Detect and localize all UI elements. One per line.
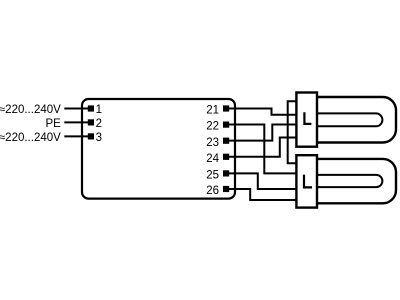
svg-text:≈220...240V: ≈220...240V xyxy=(0,104,61,116)
svg-text:PE: PE xyxy=(45,118,61,130)
pin number 25 xyxy=(206,170,219,182)
svg-text:26: 26 xyxy=(206,185,219,197)
wire pin 25 to lamp 2 pin 3 xyxy=(225,173,297,189)
label PE xyxy=(45,118,61,130)
pin number 3 xyxy=(96,132,102,144)
svg-text:21: 21 xyxy=(206,105,219,117)
pin number 2 xyxy=(96,118,102,130)
svg-text:1: 1 xyxy=(96,104,102,116)
wire link lamp 1 pin 1 to lamp 2 pin 1 xyxy=(288,101,297,163)
terminal square pin 2 xyxy=(88,119,94,125)
svg-text:2: 2 xyxy=(96,118,102,130)
svg-text:25: 25 xyxy=(206,170,219,182)
svg-text:3: 3 xyxy=(96,132,102,144)
label ~220...240V line 1 xyxy=(0,104,61,116)
wire pin 26 to lamp 2 pin 4 xyxy=(225,189,297,200)
terminal square pin 22 xyxy=(223,122,229,128)
terminal square pin 1 xyxy=(88,105,94,111)
terminal square pin 23 xyxy=(223,138,229,144)
wire N input to pin 3 xyxy=(64,135,90,137)
lamp 2 label L xyxy=(304,175,312,188)
ballast box xyxy=(82,99,235,199)
svg-text:22: 22 xyxy=(206,121,219,133)
lamp 1 tube outline xyxy=(317,97,396,143)
svg-text:23: 23 xyxy=(206,137,219,149)
lamp 1 inner tube fold xyxy=(317,113,382,126)
terminal square pin 24 xyxy=(223,154,229,160)
pin number 22 xyxy=(206,121,219,133)
lamp 1 label L xyxy=(304,112,311,124)
pin number 23 xyxy=(206,137,219,149)
pin number 21 xyxy=(206,105,219,117)
label ~220...240V line 2 xyxy=(0,132,61,144)
wire L input to pin 1 xyxy=(64,108,90,110)
pin number 26 xyxy=(206,185,219,197)
wire pin 22 to lamp 2 pin 2 xyxy=(225,125,297,174)
wire pin 21 to lamp 1 pin 2 xyxy=(225,109,297,115)
lamp 2 tube outline xyxy=(317,159,396,203)
terminal square pin 26 xyxy=(223,186,229,192)
terminal square pin 21 xyxy=(223,105,229,111)
terminal square pin 3 xyxy=(88,133,94,139)
svg-text:24: 24 xyxy=(206,153,219,165)
wire pin 23 to lamp 1 pin 3 xyxy=(225,125,297,141)
wire pin 24 to lamp 1 pin 4 xyxy=(225,138,297,157)
svg-text:≈220...240V: ≈220...240V xyxy=(0,132,61,144)
terminal square pin 25 xyxy=(223,170,229,176)
lamp 2 inner tube fold xyxy=(317,175,382,187)
lamp 1 base xyxy=(296,93,317,147)
wire PE input to pin 2 xyxy=(64,121,90,123)
lamp 2 base xyxy=(296,155,317,207)
pin number 1 xyxy=(96,104,102,116)
pin number 24 xyxy=(206,153,219,165)
